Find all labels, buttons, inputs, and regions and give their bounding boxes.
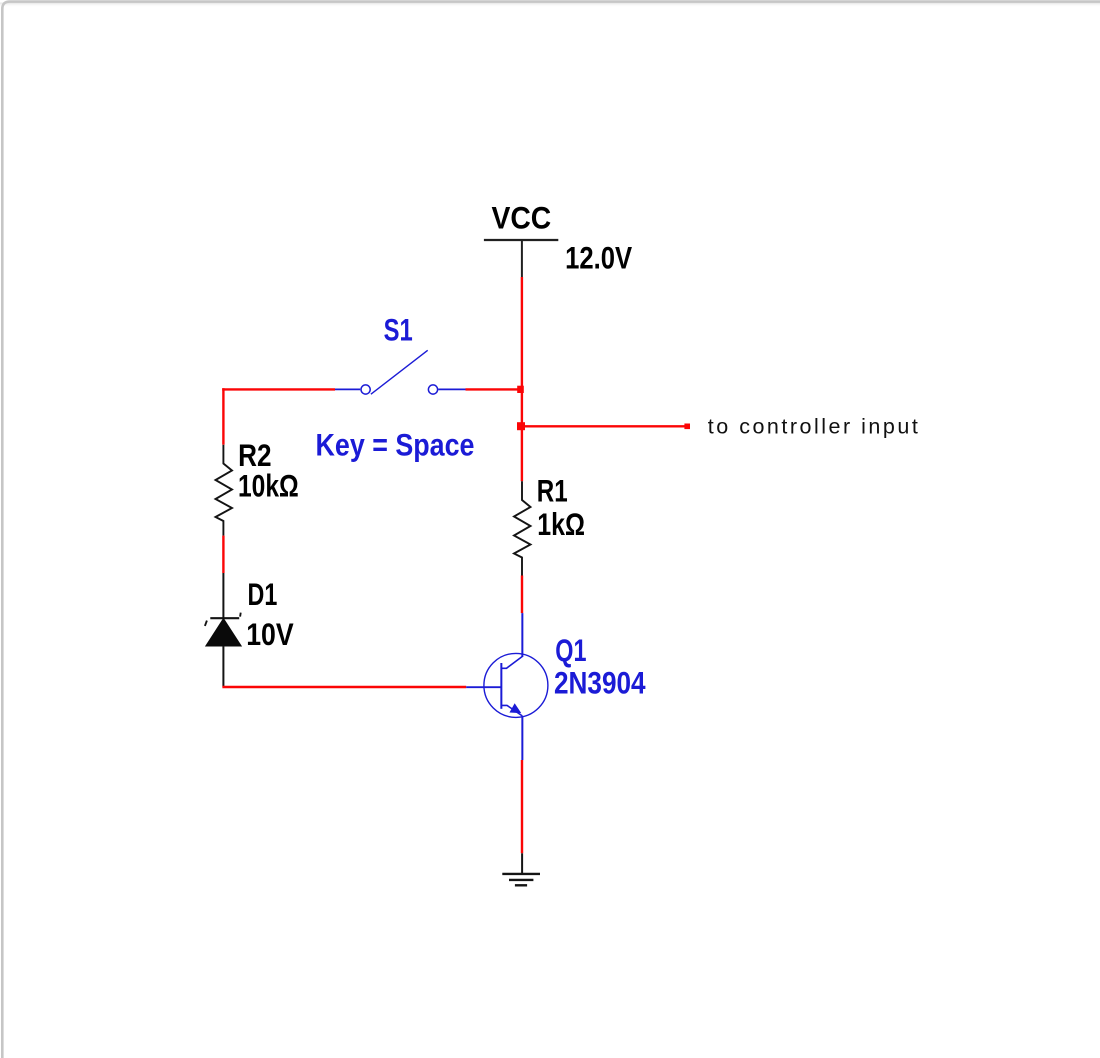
base bar (500, 663, 502, 709)
emitter lead (blue) (521, 716, 523, 760)
collector diagonal (502, 656, 523, 668)
svg-text:12.0V: 12.0V (565, 240, 632, 276)
collector lead (blue) (521, 613, 523, 657)
wire emitter to ground (red) (521, 760, 523, 853)
svg-text:Key = Space: Key = Space (316, 427, 475, 463)
zener wing left (205, 621, 207, 626)
body circle (484, 653, 548, 717)
wire base run (red horizontal) (222, 686, 466, 688)
wire R1 to Q1 collector (red) (521, 576, 523, 614)
svg-text:10V: 10V (246, 616, 294, 652)
svg-text:1kΩ: 1kΩ (537, 506, 585, 542)
terminal circle left (361, 385, 370, 394)
node junction at controller tap (517, 422, 525, 430)
zener wing right (239, 613, 242, 617)
node endpoint dot (684, 424, 690, 430)
emitter arrow (510, 704, 520, 712)
wire segment into D1 cathode (black) (222, 573, 224, 618)
wire to controller input (red horizontal) (522, 425, 686, 427)
emitter diagonal (502, 705, 523, 716)
ground (502, 853, 540, 885)
wire VCC to junction / R1 (red vertical rail) (521, 277, 523, 481)
svg-text:Q1: Q1 (555, 632, 586, 668)
terminal circle right (428, 385, 437, 394)
svg-text:VCC: VCC (492, 200, 552, 236)
wire D1 anode down (black) (222, 646, 224, 687)
node junction at switch/rail (517, 386, 524, 393)
svg-text:2N3904: 2N3904 (554, 665, 646, 701)
svg-text:10kΩ: 10kΩ (238, 468, 299, 504)
power symbol VCC (484, 240, 558, 277)
pin wire right (blue) (438, 388, 465, 390)
lever arm (371, 350, 428, 394)
transistor Q1 2N3904 (466, 613, 548, 760)
pin wire left (blue) (335, 388, 360, 390)
wire R2 to D1 (red) (222, 536, 224, 573)
svg-text:D1: D1 (248, 576, 278, 612)
zener diode D1 (205, 613, 241, 646)
wire switch to rail (red) (466, 388, 524, 390)
base lead (blue) (466, 686, 501, 688)
wire left rail vertical (red) (222, 388, 224, 445)
svg-text:R1: R1 (537, 472, 568, 508)
wire switch row: left rail to switch (red) (222, 388, 335, 390)
resistor R1 (1k) (514, 481, 531, 575)
resistor R2 (10k) (216, 445, 233, 536)
svg-text:S1: S1 (384, 312, 413, 348)
switch S1 (335, 350, 466, 394)
cathode bar (210, 617, 239, 619)
anode triangle (206, 619, 241, 646)
